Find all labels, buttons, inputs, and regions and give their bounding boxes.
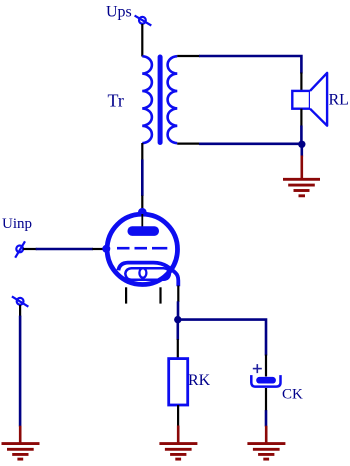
- terminal Uinp: [15, 241, 25, 257]
- wire CK to ground (navy): [265, 410, 268, 426]
- wire Uinp black stub: [23, 248, 37, 250]
- svg-text:RL: RL: [329, 92, 349, 109]
- wire speaker bottom to junction: [300, 126, 303, 147]
- svg-text:RK: RK: [188, 372, 211, 389]
- tube heater pin right: [159, 287, 161, 303]
- capacitor CK negative cup: [251, 375, 280, 387]
- wire speaker top lead (black): [300, 73, 302, 92]
- ground RK bars: [159, 444, 197, 460]
- tube V1 envelope: [107, 214, 177, 284]
- tube anode lead inside: [141, 214, 143, 228]
- wire junction down to RK (navy): [177, 320, 180, 340]
- svg-text:Uinp: Uinp: [2, 216, 32, 232]
- wire junction down to ground (navy part): [300, 144, 303, 156]
- wire CK bottom lead (black): [265, 388, 267, 411]
- wire secondary bottom lead (black stub): [177, 143, 200, 145]
- wire RK bottom lead (black): [177, 405, 179, 426]
- node junction cathode/RK/CK: [174, 316, 181, 323]
- svg-text:Ups: Ups: [106, 4, 132, 21]
- wire Ups to transformer: [141, 24, 143, 57]
- wire terminal black stub: [19, 305, 21, 317]
- wire primary-tube middle (navy): [141, 159, 144, 196]
- speaker RL box: [292, 91, 310, 109]
- wire grid lead (black stub): [92, 248, 105, 250]
- tube grid (dashed): [117, 247, 167, 250]
- tube anode plate: [128, 226, 160, 236]
- capacitor CK positive plate: [256, 377, 276, 384]
- ground bottom-left bars: [2, 444, 40, 460]
- transformer T1 primary winding: [142, 56, 152, 143]
- terminal bottom-left: [12, 296, 29, 306]
- ground CK bars: [247, 444, 285, 460]
- terminal Ups: [135, 16, 152, 26]
- wire transformer primary bottom to tube (black stub top): [141, 143, 143, 160]
- wire junction to CK (navy): [178, 320, 266, 356]
- ground bottom-left stem: [19, 426, 22, 444]
- wire RK top lead (black): [177, 339, 179, 359]
- wire speaker bottom lead (black): [300, 109, 302, 127]
- wire secondary top to speaker corner: [199, 56, 301, 74]
- tube cathode: [118, 263, 178, 287]
- wire cathode lead (black): [177, 286, 179, 303]
- tube heater oval: [139, 268, 146, 278]
- wire cathode to junction (navy): [177, 301, 180, 319]
- wire Uinp to grid (navy): [36, 248, 93, 251]
- node junction speaker/secondary: [298, 141, 305, 148]
- svg-text:Tr: Tr: [108, 91, 124, 111]
- wire secondary top lead (black stub): [177, 55, 200, 57]
- transformer T1 secondary winding: [168, 56, 178, 143]
- resistor RK: [169, 359, 188, 405]
- ground top-right bars: [283, 179, 320, 196]
- node tube top (anode): [138, 208, 147, 217]
- wire tube anode lead (black stub): [141, 196, 143, 212]
- ground RK stem: [177, 426, 180, 444]
- wire CK top lead (black): [265, 355, 267, 377]
- svg-text:CK: CK: [282, 387, 303, 403]
- ground CK stem: [265, 426, 268, 444]
- wire terminal to ground (navy): [19, 316, 22, 427]
- ground top-right stem: [300, 156, 303, 180]
- capacitor CK plus sign: [253, 364, 262, 373]
- tube heater envelope: [125, 268, 170, 280]
- node tube left (grid): [102, 245, 110, 253]
- transformer T1 core: [158, 57, 163, 143]
- speaker RL horn: [310, 73, 327, 126]
- tube heater pin left: [125, 287, 127, 303]
- wire secondary bottom to junction: [199, 143, 302, 146]
